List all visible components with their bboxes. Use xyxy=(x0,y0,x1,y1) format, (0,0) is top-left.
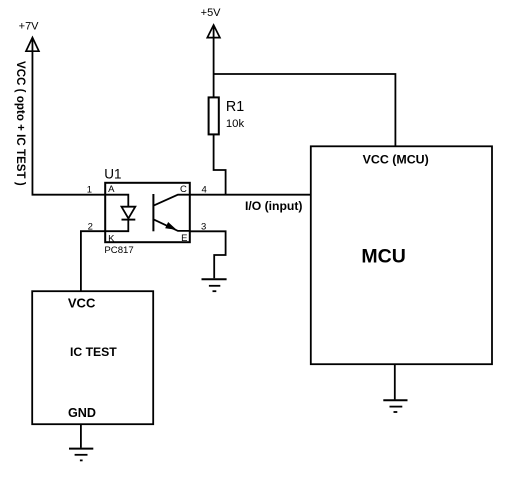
wire +5V to R1 xyxy=(213,26,215,98)
svg-text:U1: U1 xyxy=(104,167,121,182)
svg-text:I/O (input): I/O (input) xyxy=(245,199,303,213)
ground under MCU xyxy=(383,400,407,412)
phototransistor inside U1 xyxy=(153,194,190,231)
wire R1 to I/O node xyxy=(214,134,226,194)
svg-text:+5V: +5V xyxy=(201,7,222,19)
svg-text:A: A xyxy=(108,184,115,195)
svg-text:K: K xyxy=(108,233,115,244)
svg-text:R1: R1 xyxy=(226,99,244,115)
MCU box xyxy=(311,146,492,364)
wire U1 pin 2 to IC TEST VCC xyxy=(81,231,105,291)
svg-text:MCU: MCU xyxy=(361,245,405,267)
svg-text:PC817: PC817 xyxy=(104,245,133,256)
ground under IC TEST xyxy=(69,449,93,461)
svg-text:+7V: +7V xyxy=(19,20,40,32)
wire U1 pin 3 to ground xyxy=(190,231,226,278)
svg-text:VCC: VCC xyxy=(68,296,96,311)
resistor R1 xyxy=(209,97,219,134)
LED D inside U1 xyxy=(105,195,136,232)
svg-text:E: E xyxy=(181,233,187,244)
wire +7V to U1 pin 1 xyxy=(32,38,104,195)
opto-coupler U1 box xyxy=(105,183,190,242)
power flag +5V xyxy=(207,25,220,38)
svg-text:C: C xyxy=(180,184,187,195)
svg-text:IC TEST: IC TEST xyxy=(70,345,117,359)
ground under pin 3 xyxy=(202,279,227,291)
wire U1 pin 4 to MCU I/O xyxy=(190,194,311,196)
svg-text:1: 1 xyxy=(87,184,92,195)
svg-text:VCC (MCU): VCC (MCU) xyxy=(363,152,429,166)
svg-text:10k: 10k xyxy=(226,118,245,130)
wire +5V branch to MCU VCC xyxy=(214,74,396,146)
IC TEST box xyxy=(32,291,153,424)
wire IC TEST to ground xyxy=(80,424,82,448)
svg-text:VCC ( opto + IC TEST ): VCC ( opto + IC TEST ) xyxy=(14,61,26,186)
svg-text:GND: GND xyxy=(68,406,96,420)
wire MCU to ground xyxy=(394,364,396,399)
power flag +7V xyxy=(26,38,39,52)
